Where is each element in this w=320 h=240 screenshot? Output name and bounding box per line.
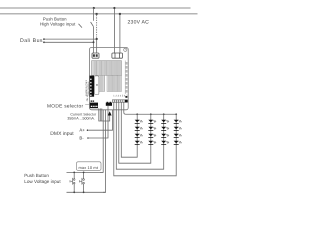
switch S1: high-voltage push button lever [91,22,94,27]
device U1: LED driver outline [90,48,129,110]
node: dali terminal dot B [43,41,45,43]
node: bus junction col2 [150,113,152,115]
black end terminal [125,100,128,103]
DIP switch SW2: mode selector [90,103,98,109]
svg-text:DMX input: DMX input [50,131,73,137]
wire: control bundle stub 1 [99,108,101,121]
small connector above mode DIP [91,100,93,102]
svg-text:MODE selector: MODE selector [47,104,83,109]
connector J2: mains input terminal [112,53,123,58]
wire: mains drop to device N [119,14,121,54]
svg-text:A+: A+ [79,128,84,133]
wire: push-button low voltage riser 1 [100,110,103,172]
LED string column 3 (D9-D12) [161,114,169,144]
node: neutral tap square [96,13,98,15]
DMX terminal block on driver bottom [106,103,112,106]
pin numbers above output terminal [113,95,127,98]
wire: return from driver to col4 [114,103,176,176]
node: S2 top [73,172,75,174]
node: dali line B end dot [93,41,95,43]
wire: DMX B- line [89,106,108,138]
wire: control bundle stub 2 [101,108,103,121]
svg-text:230V 50/60Hz: 230V 50/60Hz [87,82,90,96]
LED string column 1 (D1-D4) [135,114,143,144]
wire: return from driver to col1 [121,103,137,158]
wire: DMX A+ line [88,110,112,131]
label: Current Selector 350mA..500mA [67,112,96,120]
svg-text:230V AC: 230V AC [128,19,150,25]
node: junction on line N [119,13,121,15]
wire: dali bus line A [45,38,97,40]
node: dali line A end square [96,38,98,40]
svg-text:High Voltage input: High Voltage input [40,22,75,27]
node: bus junction col4 [175,113,177,115]
label plate on driver [95,76,99,95]
wire: 230V AC line N [0,13,198,15]
wire: leader from label to switch [79,24,83,28]
inner right rail of driver [124,61,126,95]
svg-text:Push Button: Push Button [24,173,49,178]
svg-text:ON 12: ON 12 [86,95,89,101]
output terminal strip [112,100,125,103]
node: S3 top [83,172,85,174]
wire: return lower segment into device [96,39,98,54]
svg-text:max 10 mt: max 10 mt [79,166,99,170]
connector J1: dali / push-button input terminal [92,53,99,58]
wire: mains drop to device L [113,8,115,54]
node: bus junction col1 [136,113,138,115]
svg-text:B-: B- [79,136,83,141]
small black mark above terminal end [125,96,127,98]
svg-text:350mA ...500mA.: 350mA ...500mA. [67,117,95,121]
heatsink fins of driver [92,61,122,92]
wire: push-button feed lower segment [93,27,95,54]
svg-text:Dali Bus: Dali Bus [20,38,43,44]
push button S2 (low voltage) [70,172,75,192]
node: junction on line L [113,7,115,9]
node: S2 bottom [73,191,75,193]
node: B- dot [87,137,89,139]
wire: return from driver to col3 [116,103,163,170]
wire: dashed return of push button [96,15,98,39]
DIP switch bank SW1 (vertical, on driver left) [90,76,95,97]
wire: push-button feed upper segment [93,8,95,21]
wire: low-voltage bottom rail [67,191,106,193]
node: S3 bottom [83,191,85,193]
wire: LED + bus from driver [124,103,176,115]
node: dali terminal dot A [43,38,45,40]
svg-text:Push Button: Push Button [43,16,67,21]
label box: max 10 mt [77,162,102,171]
node: bus junction col3 [163,113,165,115]
wire: push-button low voltage riser 2 [103,110,106,192]
wire: leader from MODE selector label [85,104,90,106]
svg-text:Current Selector: Current Selector [70,112,96,116]
wire: 230V AC line L (top) [0,7,191,9]
tiny vertical label text left of driver [85,80,90,96]
push button S3 (low voltage) [79,172,84,192]
LED string column 2 (D5-D8) [148,114,156,144]
screw hole top-right of driver [124,48,127,51]
wire: low-voltage top rail [67,171,104,173]
node: A+ dot [87,129,89,131]
arrow: DMX signal into driver [108,111,112,115]
svg-text:Low Voltage input: Low Voltage input [24,179,60,184]
wire: DMX direction loop [99,108,110,121]
wire: return from driver to col2 [119,103,151,164]
LED string column 4 (D13-D16) [174,114,182,144]
node: push-button wire tap on line L [93,7,95,9]
wire: dali bus line B [45,41,94,43]
